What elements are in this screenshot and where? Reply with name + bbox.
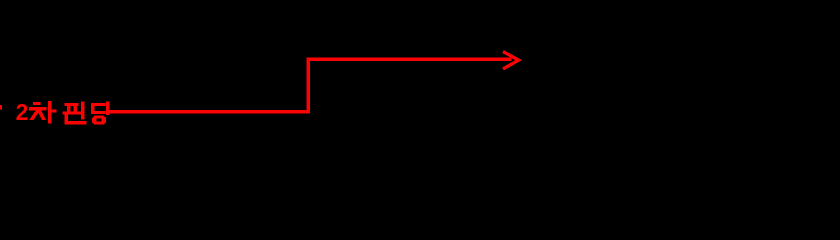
wire: lower horizontal segment	[109, 110, 309, 113]
label glyph 펀	[63, 102, 86, 124]
arrowhead	[503, 52, 519, 69]
wire stub at left edge	[0, 105, 2, 109]
wire: vertical segment	[307, 58, 310, 113]
wire: upper horizontal segment	[307, 58, 512, 61]
label glyph 차	[29, 101, 56, 123]
label glyph 딩	[91, 102, 109, 125]
svg-text:2: 2	[16, 99, 29, 125]
